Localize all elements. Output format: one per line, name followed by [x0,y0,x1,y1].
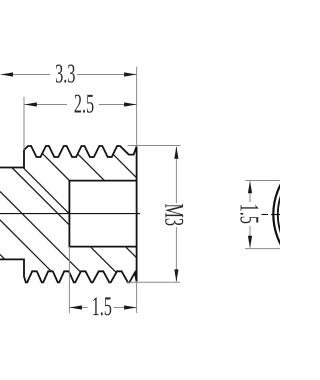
wire dim line bottom 1.5 right segment [114,307,137,309]
wire center axis line of side view [0,213,140,215]
wire dim line right 1.5 upper segment [249,182,251,203]
wire hatch line left D from step corner [24,168,70,214]
wire hatch line left A [0,220,51,271]
wire hatch line left C [12,168,70,226]
wire end view horizontal center line [262,214,269,216]
wire shared extension line at x=136.6 for 3.3 and 2.5 [136,67,138,146]
wire hatch line lower band 2 [125,247,136,258]
wire hatch line upper band 1 to bore corner [42,153,69,180]
wire hatch line bottom-left sliver [0,255,5,260]
wire dim line bottom 1.5 left segment [69,307,87,309]
wire dim line M3 upper segment [175,147,177,203]
wire M3 bottom extension line [126,281,180,283]
node label 3.3 [56,65,75,83]
node arrow bottom 1.5 right [124,305,137,309]
node outer profile of knurled insert (section view) [0,146,137,282]
wire extension line bore-left for bottom 1.5 [68,247,70,313]
node arrow right 1.5 up [248,181,252,194]
wire dim line 3.3 left segment [1,74,50,76]
wire end view center line dash 2 [271,214,280,216]
wire dim line 2.5 left segment [24,104,67,106]
wire dim line 3.3 right segment [77,74,137,76]
node bore (threaded hole) rectangle [69,181,136,247]
node end view inner circle (knurl root diameter) [278,155,320,275]
wire hatch line left B [0,192,81,273]
wire M3 top extension line [128,145,181,147]
node arrow bottom 1.5 left [69,305,82,309]
node arrow 2.5 right [124,102,137,106]
wire dim line right 1.5 lower segment [249,226,251,248]
wire extension line part-right for bottom 1.5 [136,282,138,313]
wire dim line M3 lower segment [175,227,177,282]
node label bottom 1.5 [93,297,111,315]
node end view outer circle (cropped at right edge) [273,150,320,279]
node arrow right 1.5 down [248,236,252,249]
wire dim line 2.5 right segment [99,104,137,106]
node label M3 rotated [165,204,183,225]
wire hatch line lower band 1 [90,247,116,273]
node arrow 2.5 left [24,102,37,106]
node label right 1.5 rotated [240,205,258,223]
wire right 1.5 top extension line [246,180,281,182]
node arrow M3 up [174,146,178,159]
node label 2.5 [75,95,94,113]
wire extension line for 2.5 at x=24 [23,97,25,150]
node arrow 3.3 right [124,72,137,76]
wire right 1.5 bottom extension line [245,248,280,250]
node arrow 3.3 left [1,72,14,76]
node arrow M3 down [174,269,178,282]
wire hatch line upper band 2 [78,154,105,181]
wire hatch line upper band 3 to right edge [113,154,137,178]
